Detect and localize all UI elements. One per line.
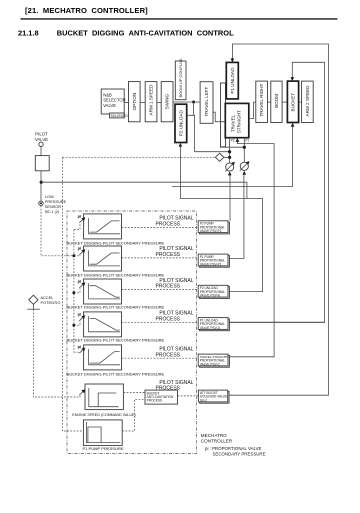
svg-text:BUCKET DIGGING PILOT SECONDARY: BUCKET DIGGING PILOT SECONDARY PRESSURE xyxy=(67,272,165,277)
svg-text:SECONDARY PRESSURE: SECONDARY PRESSURE xyxy=(213,451,266,456)
wire xyxy=(157,101,161,103)
svg-text:VALVE PSV-P2: VALVE PSV-P2 xyxy=(200,229,222,233)
wire jog and H2 to P1 line xyxy=(220,144,244,148)
dashed line to diamond xyxy=(63,156,216,158)
svg-text:VALVE: VALVE xyxy=(35,137,48,142)
dashed connector row 2 xyxy=(122,257,199,259)
spool BUCKET (bold) xyxy=(287,81,298,122)
dashed connector row 3 xyxy=(122,289,199,291)
header rule xyxy=(21,18,338,20)
svg-text:ARM 2 SPEED: ARM 2 SPEED xyxy=(305,85,310,117)
wire xyxy=(282,101,287,103)
svg-text:BUCKET DIGGING PILOT SECONDARY: BUCKET DIGGING PILOT SECONDARY PRESSURE xyxy=(67,305,165,310)
valve box PSV-C xyxy=(198,354,229,367)
spool OPTION xyxy=(129,82,141,122)
spool TRAVEL STRAIGHT (bold) xyxy=(225,103,249,137)
accel potentio sensor xyxy=(29,295,38,304)
arrow into TRAVEL STRAIGHT bottom xyxy=(236,138,240,142)
graph block 6 engine speed map xyxy=(72,384,135,417)
wire P2 port line xyxy=(229,138,231,163)
wire xyxy=(299,101,302,103)
svg-text:ARM 1 SPEED: ARM 1 SPEED xyxy=(149,84,154,116)
wire P: pilot feed to PSV-B net xyxy=(41,182,247,198)
arrow into P2 UNLOAD bottom xyxy=(179,143,183,147)
svg-text:VALVE PSV-B: VALVE PSV-B xyxy=(200,294,220,298)
spool TRAVEL RIGHT xyxy=(256,81,268,122)
node pilot junction dot xyxy=(40,181,43,184)
svg-text:P1: P1 xyxy=(245,139,249,143)
svg-text:BUCKET DIGGING PILOT SECONDARY: BUCKET DIGGING PILOT SECONDARY PRESSURE xyxy=(67,240,165,245)
dashed branch to block1 xyxy=(74,223,80,230)
svg-text:SWING: SWING xyxy=(165,94,170,110)
svg-text:OPTION: OPTION xyxy=(132,93,137,111)
svg-text:21.1.8: 21.1.8 xyxy=(18,28,39,37)
svg-text:P1 PUMP PRESSURE: P1 PUMP PRESSURE xyxy=(82,446,123,451)
svg-text:pi: pi xyxy=(78,312,81,317)
dashed branch to block3 xyxy=(74,288,80,293)
graph block 3 bucket digging pilot map (decreasing) xyxy=(67,279,165,310)
valve box PSV-P1 xyxy=(198,254,229,267)
pilot valve port circle xyxy=(39,142,43,146)
wire H1: PSV-C route into TRAVEL STRAIGHT xyxy=(228,142,274,357)
svg-text:VALVE PSV-D: VALVE PSV-D xyxy=(200,326,221,330)
dashed connector anti-cavitation to SV-2 xyxy=(178,395,199,397)
node dots on P2/P1 lines xyxy=(228,150,231,153)
wire pilot valve down xyxy=(40,171,42,201)
svg-text:BUCKET: BUCKET xyxy=(291,93,296,112)
spool ARM 1 SPEED xyxy=(145,82,157,122)
svg-text:PROCESS: PROCESS xyxy=(156,352,181,358)
wire xyxy=(140,101,145,103)
arrow into P2 regulator from PSV-P2 xyxy=(228,171,232,175)
svg-text:[21. MECHATRO CONTROLLER]: [21. MECHATRO CONTROLLER] xyxy=(25,6,148,15)
svg-text:P2 UNLOAD: P2 UNLOAD xyxy=(178,109,183,136)
valve box PSV-B xyxy=(198,285,229,298)
graph block 2 bucket digging pilot map xyxy=(67,246,165,278)
spool ARM 2 SPEED xyxy=(302,81,314,122)
arrow into BUCKET bottom xyxy=(291,123,295,127)
dashed route block7 to anti-cavitation xyxy=(122,399,145,431)
svg-text:VALVE: VALVE xyxy=(103,103,116,108)
bucket anti-cavitation process box xyxy=(145,390,178,404)
external ref diamond node xyxy=(215,153,223,161)
graph block 4 bucket digging pilot map (decreasing) xyxy=(67,312,165,343)
svg-text:SOLENOID: SOLENOID xyxy=(111,114,129,118)
svg-text:PROCESS: PROCESS xyxy=(156,222,181,228)
svg-text:CONTROLLER: CONTROLLER xyxy=(201,439,233,444)
svg-text:pi: pi xyxy=(78,214,81,219)
node junction dot xyxy=(192,101,195,104)
graph block 7 P1 pump pressure map xyxy=(82,420,123,451)
wire TRAVEL LEFT to TRAVEL STRAIGHT xyxy=(213,112,225,122)
svg-text:P2: P2 xyxy=(231,139,235,143)
svg-text:BUCKET DIGGING ANTI-CAVITATI: BUCKET DIGGING ANTI-CAVITATION CONTROL xyxy=(57,28,234,37)
arrow into P1 regulator from PSV-P1 xyxy=(243,171,247,175)
spool BOOM UP CONFLUX xyxy=(175,61,186,100)
valve box SV-2 att boost xyxy=(198,390,229,403)
spool P2 UNLOAD (bold) xyxy=(175,104,187,142)
wire PSV-P1 output xyxy=(228,175,244,259)
svg-text:pi: pi xyxy=(78,344,81,349)
svg-text:P1 UNLOAD: P1 UNLOAD xyxy=(230,67,235,94)
dashed bus down left side xyxy=(63,157,84,431)
arrow into P1 UNLOAD top xyxy=(231,58,235,62)
spool SWING xyxy=(161,82,173,122)
dashed branch to block5 xyxy=(74,351,80,353)
svg-text:TRAVEL: TRAVEL xyxy=(231,114,236,132)
svg-text:VALVE PSV-P1: VALVE PSV-P1 xyxy=(200,262,222,266)
wire N&B to OPTION xyxy=(124,101,128,103)
svg-text:pi: pi xyxy=(78,246,81,251)
dashed branch vertical xyxy=(73,230,75,353)
wire Q: pilot feed to BUCKET bottom xyxy=(172,127,293,187)
narrow hidden spool section xyxy=(221,83,226,147)
graph block 5 bucket digging pilot map (rising late) xyxy=(67,344,165,376)
spool P1 UNLOAD (bold) xyxy=(226,62,238,99)
wire PSV-D output (joins wire B) xyxy=(228,321,325,323)
proportional valve P2 pump regulator (circle with arrow) xyxy=(226,163,234,171)
svg-text:SE-1 (2): SE-1 (2) xyxy=(45,209,60,214)
wire B: PSV-D output up-over to BUCKET top xyxy=(228,62,325,322)
graph block 1 bucket digging pilot map xyxy=(67,214,165,246)
svg-text:MECHATRO: MECHATRO xyxy=(201,433,227,438)
svg-text:TRAVEL RIGHT: TRAVEL RIGHT xyxy=(259,83,264,116)
svg-text:ENGINE SPEED (COMMAND VALUE): ENGINE SPEED (COMMAND VALUE) xyxy=(72,413,135,417)
arrow into BUCKET top xyxy=(291,77,295,81)
spool BOOM xyxy=(271,81,282,122)
svg-text:PROCESS: PROCESS xyxy=(156,252,181,258)
svg-text:SV-2: SV-2 xyxy=(200,398,207,402)
valve box PSV-P2 xyxy=(198,221,229,234)
wire xyxy=(268,101,271,103)
svg-text:BOOM: BOOM xyxy=(274,94,279,108)
svg-text:PROCESS: PROCESS xyxy=(156,316,181,322)
dashed connector row 1 xyxy=(122,226,199,228)
dashed branch to block4 xyxy=(74,321,80,325)
proportional valve P1 pump regulator (circle with arrow) xyxy=(240,162,248,170)
svg-text:TRAVEL LEFT: TRAVEL LEFT xyxy=(204,86,209,116)
wire A: SV-2 output up-over to P1 UNLOAD top xyxy=(228,44,329,395)
svg-text:VALVE PSV-C: VALVE PSV-C xyxy=(200,362,221,366)
svg-text:PROCESS: PROCESS xyxy=(147,399,163,403)
dashed connector row 4 xyxy=(122,321,199,323)
controller dashed boundary xyxy=(67,211,197,454)
wire P1 port line xyxy=(243,138,245,163)
svg-text:BUCKET DIGGING PILOT SECONDARY: BUCKET DIGGING PILOT SECONDARY PRESSURE xyxy=(67,338,165,343)
wire from spool junction to P2 line xyxy=(187,102,230,152)
solenoid box xyxy=(110,113,125,118)
svg-text:STRAIGHT: STRAIGHT xyxy=(237,110,242,133)
wire R: PSV-B route to P2 UNLOAD xyxy=(180,147,262,292)
node dots on branch xyxy=(72,254,75,257)
valve box PSV-D xyxy=(198,318,229,331)
spool TRAVEL LEFT xyxy=(200,82,213,124)
svg-text:pi: pi xyxy=(78,279,81,284)
dashed connector row 5 xyxy=(122,357,199,359)
svg-text:BOOM UP CONFLUX: BOOM UP CONFLUX xyxy=(178,58,183,97)
low pressure sensor SE-1 xyxy=(39,201,43,205)
dashed from sensor to block2 xyxy=(41,205,80,255)
svg-text:POTENTIO: POTENTIO xyxy=(41,300,61,305)
svg-text:BUCKET DIGGING PILOT SECONDARY: BUCKET DIGGING PILOT SECONDARY PRESSURE xyxy=(67,372,165,377)
dashed connector block6 to anti-cavitation xyxy=(123,392,145,394)
dashed accel to block6 xyxy=(33,309,80,397)
svg-text:PROCESS: PROCESS xyxy=(156,284,181,290)
wire SWING to TRAVEL LEFT with junction xyxy=(173,101,200,103)
svg-text:pi : PROPORTIONAL VALVE: pi : PROPORTIONAL VALVE xyxy=(205,446,262,451)
N&B selector valve xyxy=(101,89,124,114)
wire xyxy=(40,147,42,156)
pilot valve body xyxy=(35,156,49,171)
wire TRAVEL STRAIGHT to TRAVEL RIGHT xyxy=(249,102,256,119)
